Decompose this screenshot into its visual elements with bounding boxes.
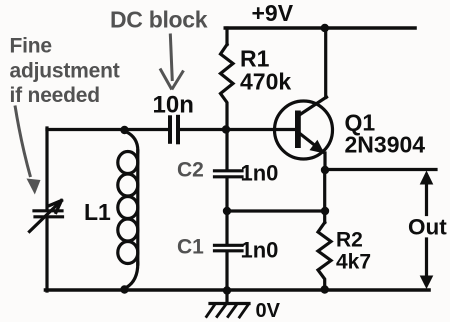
svg-text:10n: 10n <box>153 92 194 119</box>
svg-text:470k: 470k <box>240 69 291 95</box>
svg-text:4k7: 4k7 <box>336 251 371 274</box>
svg-text:if needed: if needed <box>10 84 100 107</box>
svg-text:0V: 0V <box>256 300 281 322</box>
svg-text:+9V: +9V <box>252 0 294 26</box>
svg-text:R2: R2 <box>336 229 363 252</box>
svg-text:L1: L1 <box>84 199 111 225</box>
svg-text:DC block: DC block <box>110 7 208 33</box>
svg-text:Out: Out <box>408 215 447 240</box>
svg-text:adjustment: adjustment <box>10 60 120 83</box>
svg-text:Fine: Fine <box>10 35 52 58</box>
svg-text:2N3904: 2N3904 <box>345 132 426 158</box>
svg-text:1n0: 1n0 <box>241 161 279 186</box>
svg-text:1n0: 1n0 <box>241 238 279 263</box>
svg-text:C1: C1 <box>177 236 204 259</box>
svg-text:C2: C2 <box>177 159 204 182</box>
